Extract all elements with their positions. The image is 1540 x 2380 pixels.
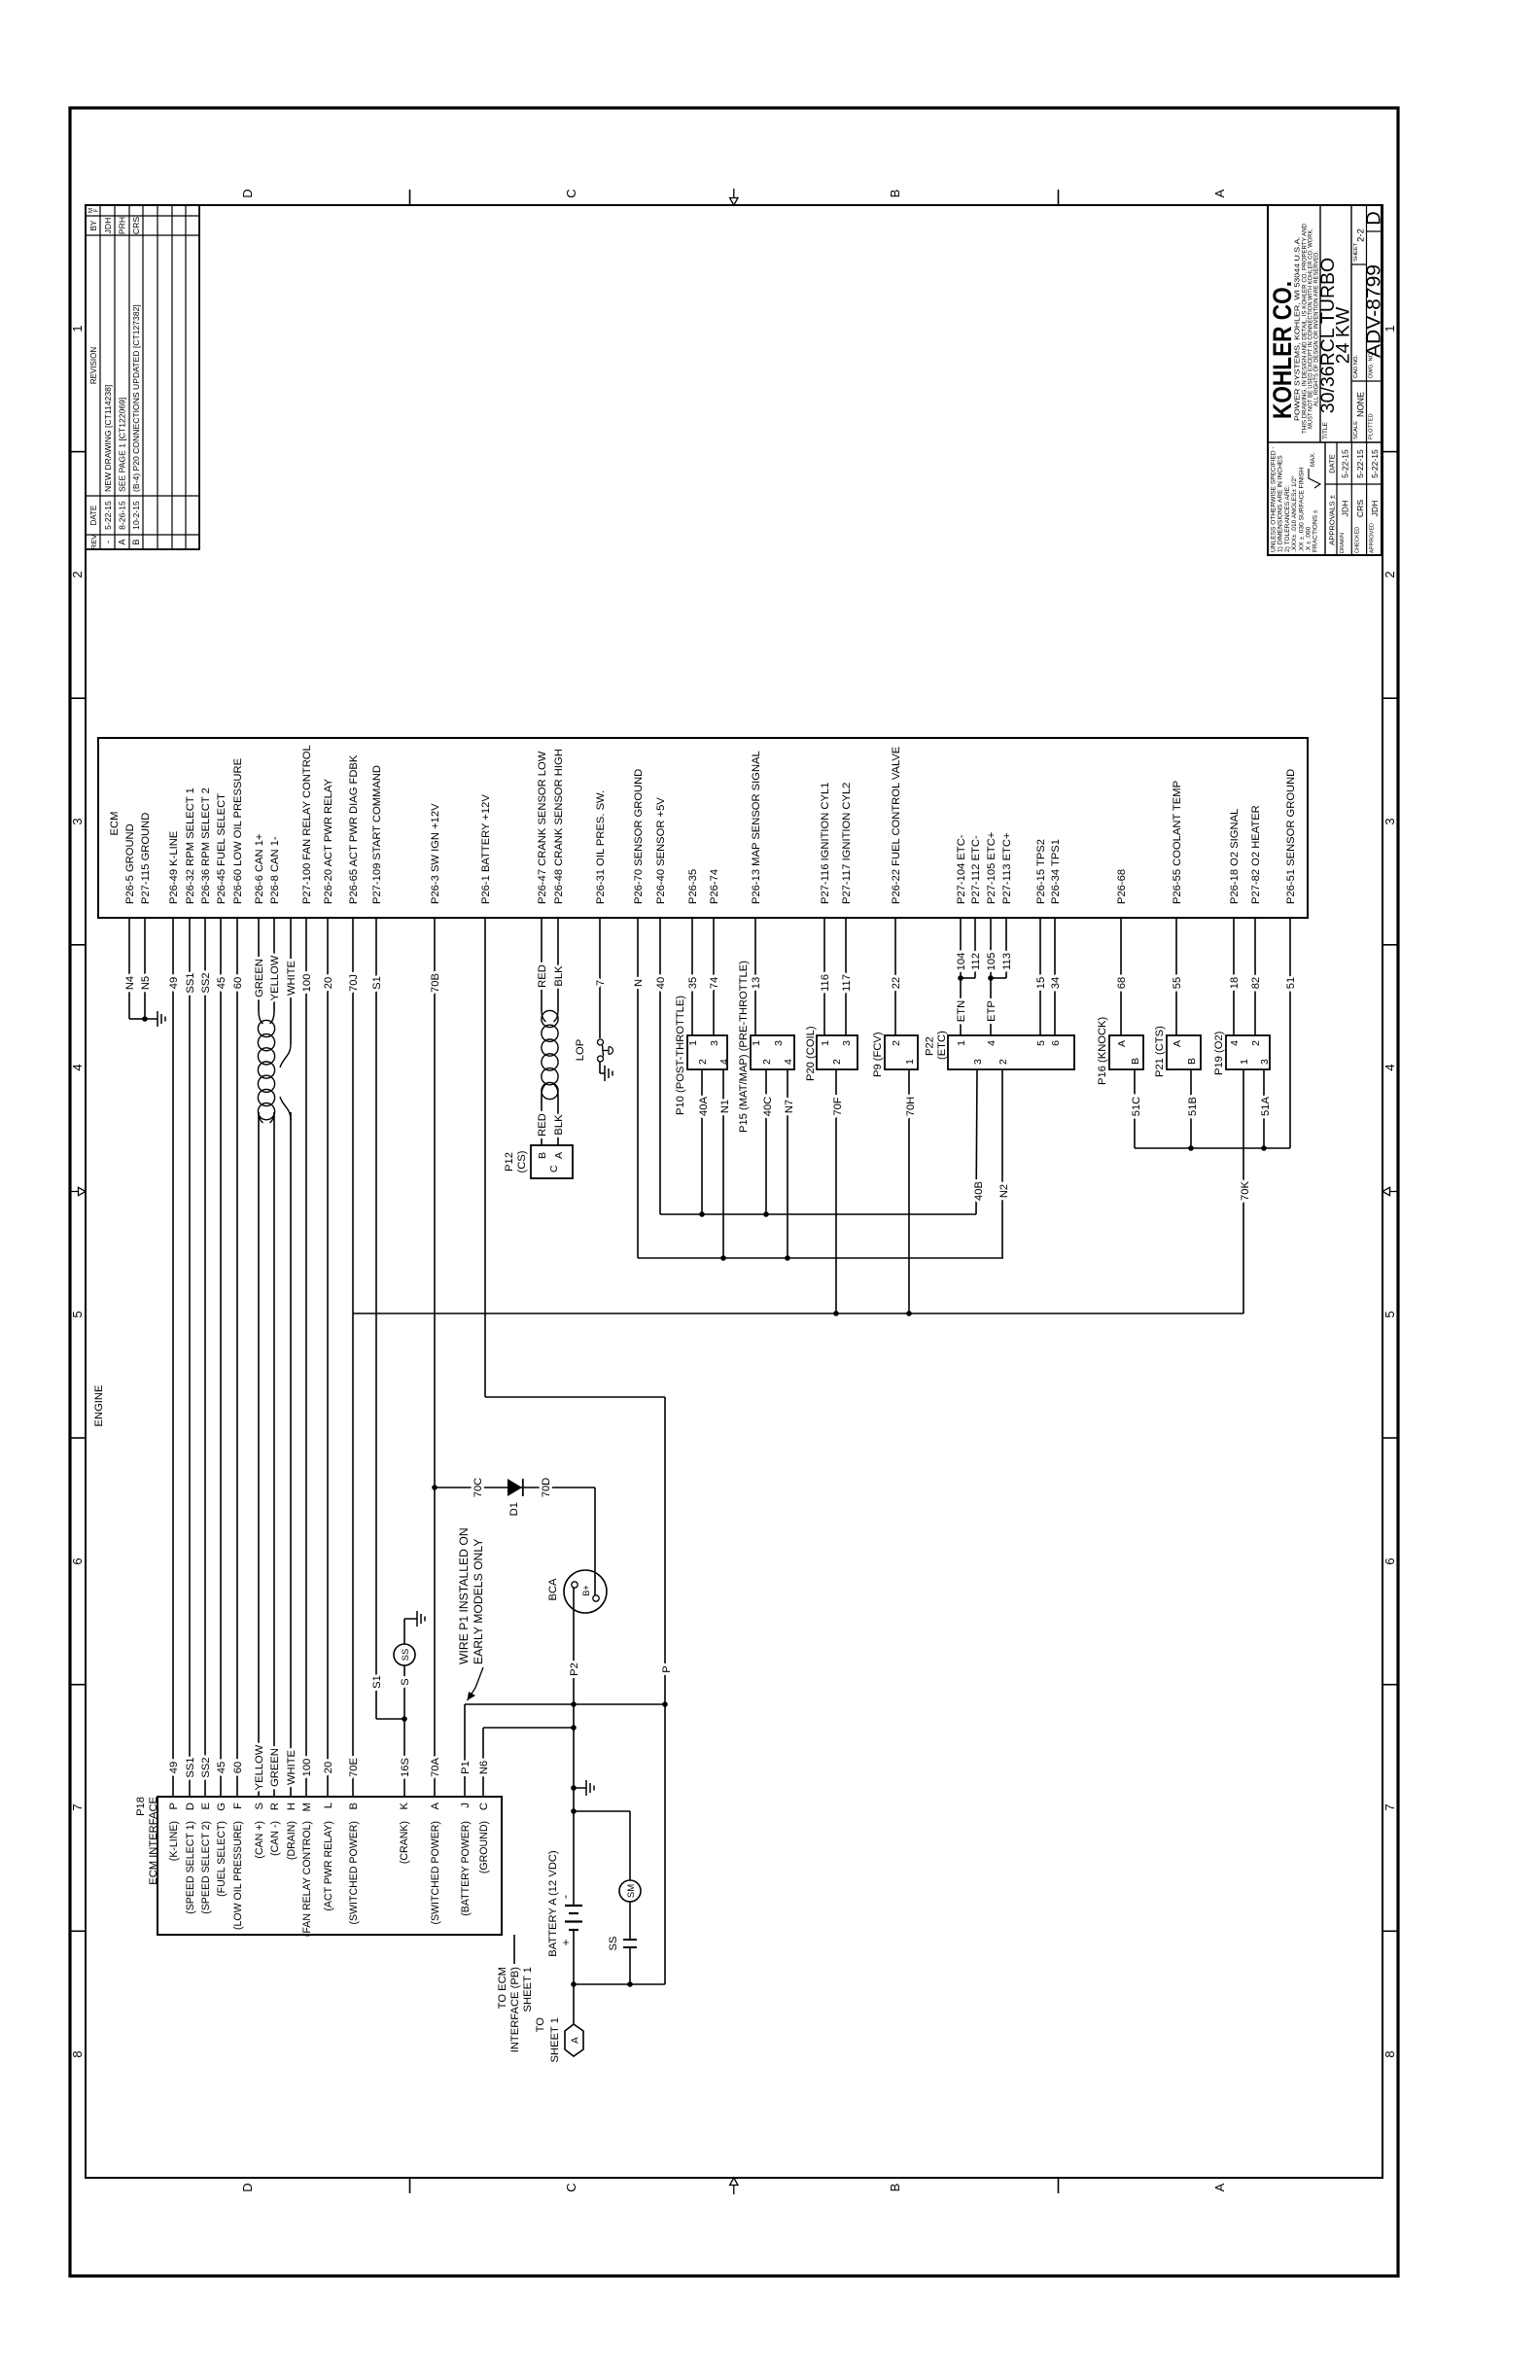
ECM connector box (98, 738, 1308, 918)
hexagon sheet reference A (565, 2024, 583, 2056)
svg-text:N1: N1 (719, 1100, 731, 1113)
wire CAN GREEN (P18 side) (273, 1112, 275, 1797)
svg-text:SS: SS (401, 1649, 411, 1662)
svg-text:(CAN +): (CAN +) (254, 1821, 265, 1859)
svg-text:P21 (CTS): P21 (CTS) (1154, 1026, 1166, 1077)
svg-text:70J: 70J (348, 974, 360, 992)
svg-text:6: 6 (70, 1557, 85, 1564)
wire 35 (691, 918, 693, 1035)
svg-text:P26-65 ACT PWR DIAG FDBK: P26-65 ACT PWR DIAG FDBK (348, 754, 360, 904)
svg-text:74: 74 (709, 977, 720, 989)
svg-text:70F: 70F (832, 1097, 844, 1115)
svg-text:GREEN: GREEN (269, 1748, 281, 1787)
svg-text:WHITE: WHITE (286, 1750, 297, 1785)
svg-text:B: B (537, 1152, 548, 1159)
wire 112 (974, 918, 976, 978)
svg-text:(CAN -): (CAN -) (269, 1821, 281, 1856)
junction 40C (763, 1211, 769, 1217)
svg-text:3: 3 (1382, 818, 1397, 824)
svg-text:S1: S1 (371, 976, 383, 990)
sheet outer border (70, 108, 1398, 2276)
svg-text:JDH: JDH (1370, 501, 1380, 517)
svg-text:(ETC): (ETC) (936, 1031, 948, 1060)
svg-text:P27-82 O2 HEATER: P27-82 O2 HEATER (1250, 805, 1262, 904)
connector P20 (COIL) (817, 1035, 857, 1069)
svg-text:SM: SM (626, 1884, 637, 1898)
wire S1 riser (376, 1718, 404, 1720)
svg-text:104: 104 (956, 953, 967, 971)
wire 116 (823, 918, 825, 1035)
wire SS2/SS2 (204, 918, 206, 1797)
svg-text:6: 6 (1382, 1557, 1397, 1564)
svg-text:105: 105 (986, 953, 997, 971)
svg-text:3: 3 (972, 1059, 984, 1065)
svg-text:P19 (O2): P19 (O2) (1213, 1031, 1225, 1075)
svg-text:70E: 70E (348, 1758, 360, 1777)
wire 22 (894, 918, 896, 1035)
svg-text:BCA: BCA (547, 1578, 559, 1601)
svg-text:45: 45 (216, 1762, 227, 1773)
svg-text:APPROVALS ±: APPROVALS ± (1328, 495, 1337, 545)
junction 40A (699, 1211, 705, 1217)
svg-text:TO ECM: TO ECM (497, 1967, 508, 2009)
svg-text:S: S (254, 1802, 265, 1809)
SS contact plate 1 (623, 1939, 637, 1941)
svg-text:(DRAIN): (DRAIN) (286, 1821, 297, 1860)
svg-text:P26-18 O2 SIGNAL: P26-18 O2 SIGNAL (1229, 809, 1241, 904)
70 net riser (353, 1312, 1243, 1314)
junction starter branch (571, 1808, 577, 1814)
svg-text:WHITE: WHITE (286, 961, 297, 996)
svg-text:H: H (286, 1802, 297, 1810)
svg-text:D: D (240, 189, 255, 197)
svg-text:ADV-8799: ADV-8799 (1364, 264, 1385, 358)
wire riser P1/P2/P junction (465, 1703, 665, 1705)
svg-text:5: 5 (1035, 1040, 1047, 1046)
svg-text:P9 (FCV): P9 (FCV) (872, 1032, 884, 1077)
svg-text:(FUEL SELECT): (FUEL SELECT) (216, 1821, 227, 1897)
svg-text:P: P (168, 1802, 180, 1809)
svg-text:BLK: BLK (553, 1114, 565, 1136)
svg-text:C: C (564, 2183, 578, 2191)
svg-text:TITLE: TITLE (1322, 421, 1329, 439)
LOP low oil pressure switch (598, 1039, 604, 1045)
junction S1/S/16S (402, 1716, 407, 1722)
wire RED (ECM side) (541, 918, 542, 1011)
svg-text:B: B (1130, 1058, 1141, 1065)
svg-text:51A: 51A (1260, 1097, 1272, 1116)
svg-text:PLOTTED: PLOTTED (1369, 413, 1375, 439)
wire N2 (1001, 1069, 1003, 1258)
wire CAN YELLOW (P18 side) (258, 1112, 260, 1797)
wire 51 (1289, 918, 1291, 1148)
svg-text:SHEET: SHEET (1353, 242, 1359, 262)
wire 16S (403, 1719, 405, 1797)
ground at LOP (600, 1066, 612, 1081)
svg-text:3: 3 (709, 1040, 720, 1046)
svg-text:24 KW: 24 KW (1333, 306, 1354, 364)
svg-text:+: + (559, 1939, 573, 1945)
wire BLK (P12 side) (557, 1095, 559, 1145)
svg-text:P26-36 RPM SELECT 2: P26-36 RPM SELECT 2 (200, 787, 212, 904)
svg-text:LOP: LOP (575, 1039, 586, 1061)
center arrow left (730, 2178, 738, 2194)
svg-text:EARLY MODELS ONLY: EARLY MODELS ONLY (472, 1539, 485, 1664)
svg-text:49: 49 (168, 977, 180, 989)
svg-text:SS: SS (608, 1937, 619, 1951)
svg-text:A: A (571, 2037, 581, 2044)
svg-text:P26-6 CAN 1+: P26-6 CAN 1+ (254, 834, 265, 904)
svg-text:C: C (478, 1802, 490, 1810)
svg-text:60: 60 (232, 977, 244, 989)
svg-text:20: 20 (323, 1762, 334, 1773)
svg-text:E: E (200, 1802, 212, 1809)
battery positive wire (573, 1930, 575, 1984)
svg-text:ECM: ECM (109, 812, 121, 836)
wire N (637, 918, 639, 1258)
SS contact plate 2 (623, 1946, 637, 1948)
svg-text:N6: N6 (478, 1761, 490, 1774)
connector P15 (MAT/MAP) (PRE-THROTTLE) (751, 1035, 794, 1069)
svg-text:2: 2 (1382, 571, 1397, 577)
svg-text:3: 3 (70, 818, 85, 824)
svg-text:P26-68: P26-68 (1116, 869, 1128, 904)
zone tick right (409, 190, 411, 205)
svg-text:40C: 40C (762, 1097, 774, 1117)
wire CAN YELLOW (ECM side) (273, 918, 275, 1011)
svg-text:SS1: SS1 (185, 972, 196, 993)
wire 70J/70E (352, 918, 354, 1797)
svg-text:UNLESS OTHERWISE SPECIFIED -: UNLESS OTHERWISE SPECIFIED - (1271, 446, 1277, 552)
svg-text:P27-104 ETC-: P27-104 ETC- (956, 834, 967, 904)
junction N1 (720, 1255, 726, 1261)
svg-text:F: F (94, 208, 100, 212)
svg-text:(ACT PWR RELAY): (ACT PWR RELAY) (323, 1821, 334, 1911)
wire 34 (1054, 918, 1056, 1035)
svg-text:-: - (103, 541, 113, 543)
wire drain WHITE (ECM side) (290, 918, 292, 1044)
svg-text:117: 117 (841, 974, 853, 992)
svg-text:1: 1 (70, 325, 85, 332)
svg-text:BATTERY A (12 VDC): BATTERY A (12 VDC) (547, 1850, 559, 1957)
title cell top line (1319, 205, 1321, 442)
40 net riser (660, 1213, 976, 1215)
svg-text:34: 34 (1050, 977, 1062, 989)
svg-text:100: 100 (301, 974, 313, 993)
svg-text:22: 22 (891, 977, 902, 989)
wire 105 (990, 918, 992, 978)
svg-text:REVISION: REVISION (89, 347, 98, 384)
scale row top line (1350, 205, 1352, 442)
svg-text:K: K (399, 1802, 410, 1809)
svg-text:MAX.: MAX. (1310, 452, 1316, 467)
svg-text:51: 51 (1285, 977, 1297, 989)
svg-text:REV: REV (89, 535, 98, 549)
svg-text:B+: B+ (581, 1585, 591, 1595)
wire N7 (787, 1069, 788, 1258)
junction ground tap (571, 1785, 577, 1791)
svg-text:TO: TO (535, 2017, 546, 2033)
svg-text:P16 (KNOCK): P16 (KNOCK) (1097, 1016, 1108, 1085)
wire 60/60 (236, 918, 238, 1797)
svg-text:4: 4 (986, 1040, 997, 1046)
svg-text:55: 55 (1172, 977, 1183, 989)
svg-text:P26-51 SENSOR GROUND: P26-51 SENSOR GROUND (1285, 769, 1297, 904)
wire 51C (1134, 1069, 1136, 1148)
svg-text:P26-15 TPS2: P26-15 TPS2 (1035, 839, 1047, 904)
P18 ECM INTERFACE box (157, 1797, 502, 1935)
svg-text:116: 116 (820, 974, 831, 992)
svg-text:8-26-15: 8-26-15 (118, 501, 127, 530)
ground N4/N5 (145, 1011, 165, 1027)
wire CAN GREEN (ECM side) (258, 918, 260, 1011)
svg-text:13: 13 (751, 977, 762, 989)
zone tick top (70, 697, 86, 699)
zone tick top (70, 1437, 86, 1439)
wire N4 (128, 918, 130, 1019)
svg-text:.XXX± .010 ANGLES± 1/2: .XXX± .010 ANGLES± 1/2° (1290, 475, 1298, 552)
svg-text:P15 (MAT/MAP) (PRE-THROTTLE): P15 (MAT/MAP) (PRE-THROTTLE) (738, 961, 750, 1133)
wire S1 (375, 918, 377, 1719)
svg-text:F: F (232, 1802, 244, 1809)
tolerance/approvals divider (1324, 442, 1326, 555)
svg-text:M: M (301, 1802, 313, 1811)
svg-text:L: L (323, 1802, 334, 1808)
svg-text:51C: 51C (1131, 1097, 1142, 1117)
connector P10 (POST-THROTTLE) (687, 1035, 727, 1069)
wire 55 (1175, 918, 1177, 1035)
svg-text:N7: N7 (784, 1100, 795, 1113)
wire hexagon to bus (573, 1984, 575, 2024)
svg-text:51B: 51B (1187, 1097, 1199, 1116)
svg-text:ETN: ETN (956, 1000, 967, 1022)
svg-text:P26-3 SW IGN +12V: P26-3 SW IGN +12V (430, 803, 441, 904)
wire 20/20 (327, 918, 329, 1797)
SS contactor (629, 1902, 631, 1940)
note arrow (475, 1667, 483, 1688)
wire 40A (701, 1069, 703, 1214)
svg-text:-: - (558, 1895, 572, 1899)
svg-text:(B-4) P20 CONNECTIONS UPDATED: (B-4) P20 CONNECTIONS UPDATED [CT127382] (131, 304, 141, 492)
svg-text:70D: 70D (541, 1478, 552, 1498)
LOP ground wire (599, 1062, 601, 1073)
junction 51A (1261, 1145, 1267, 1151)
svg-text:CAD NO.: CAD NO. (1353, 354, 1359, 378)
svg-text:5-22-15: 5-22-15 (103, 501, 113, 530)
svg-text:.XX ± .030 SURFACE FIN: .XX ± .030 SURFACE FINISH (1298, 468, 1305, 552)
zone tick bottom (1382, 451, 1398, 453)
svg-text:2: 2 (1250, 1040, 1262, 1046)
svg-text:(SWITCHED POWER): (SWITCHED POWER) (430, 1821, 441, 1925)
svg-text:2: 2 (891, 1040, 902, 1046)
SS crank switch circle (394, 1644, 415, 1665)
wire 82 (1254, 918, 1256, 1035)
junction 70H (906, 1311, 912, 1316)
svg-text:A: A (1116, 1040, 1128, 1047)
wire N4/N5 riser (129, 1018, 145, 1020)
svg-text:DATE: DATE (1328, 454, 1337, 473)
svg-text:70H: 70H (905, 1097, 917, 1117)
svg-text:4: 4 (718, 1059, 730, 1065)
svg-text:P26-20 ACT PWR RELAY: P26-20 ACT PWR RELAY (323, 779, 334, 904)
svg-text:2-2: 2-2 (1356, 228, 1367, 242)
svg-text:(FAN RELAY CONTROL): (FAN RELAY CONTROL) (301, 1821, 313, 1937)
svg-text:1) DIMENSIONS ARE IN INCHES: 1) DIMENSIONS ARE IN INCHES (1277, 455, 1284, 552)
svg-text:A: A (553, 1152, 565, 1159)
svg-text:D: D (240, 2183, 255, 2191)
svg-text:1: 1 (687, 1040, 699, 1046)
svg-text:(CS): (CS) (516, 1150, 528, 1172)
zone tick bottom (1382, 1930, 1398, 1932)
zone tick bottom (1382, 697, 1398, 699)
svg-text:FRACTIONS ±: FRACTIONS ± (1312, 509, 1319, 552)
battery plate short 2 (569, 1929, 578, 1931)
zone tick left (409, 2178, 411, 2193)
svg-text:2: 2 (997, 1059, 1009, 1065)
wire 70C (435, 1487, 595, 1488)
svg-text:P26-45 FUEL SELECT: P26-45 FUEL SELECT (216, 793, 227, 904)
svg-text:2: 2 (761, 1059, 773, 1065)
wire 13 (754, 918, 756, 1035)
svg-text:P26-8 CAN 1-: P26-8 CAN 1- (269, 836, 281, 904)
junction bus/starter (627, 1981, 633, 1987)
svg-text:(SPEED SELECT 1): (SPEED SELECT 1) (185, 1821, 196, 1914)
svg-text:7: 7 (70, 1803, 85, 1810)
wire 15 (1039, 918, 1041, 1035)
svg-text:40: 40 (655, 977, 667, 989)
svg-text:P26-60 LOW OIL PRESSURE: P26-60 LOW OIL PRESSURE (232, 758, 244, 904)
zone tick bottom (1382, 1437, 1398, 1439)
svg-text:B: B (888, 190, 902, 198)
svg-text:P26-55 COOLANT TEMP: P26-55 COOLANT TEMP (1172, 781, 1183, 904)
svg-text:BY: BY (89, 220, 98, 230)
BCA battery charging alternator (564, 1570, 607, 1613)
svg-text:4: 4 (1382, 1064, 1397, 1070)
svg-text:N: N (633, 979, 645, 987)
svg-text:NEW DRAWING [CT114238]: NEW DRAWING [CT114238] (103, 385, 113, 492)
svg-text:RED: RED (537, 1113, 548, 1137)
svg-text:P27-105 ETC+: P27-105 ETC+ (986, 832, 997, 904)
svg-text:G: G (216, 1802, 227, 1811)
svg-text:5-22-15: 5-22-15 (1370, 449, 1380, 478)
svg-text:B: B (131, 539, 141, 544)
svg-text:GREEN: GREEN (254, 959, 265, 997)
svg-text:S: S (400, 1678, 411, 1685)
P18 to-sheet-1 stub wire (513, 1935, 515, 1964)
wire drain WHITE (P18 side) (290, 1112, 292, 1797)
svg-text:A: A (1212, 2183, 1227, 2191)
zone tick bottom (1382, 944, 1398, 946)
svg-text:(SPEED SELECT 2): (SPEED SELECT 2) (200, 1821, 212, 1914)
SS circle ground wire (403, 1619, 405, 1644)
wire RED (P12 side) (541, 1095, 542, 1145)
svg-text:16S: 16S (400, 1758, 411, 1777)
junction N4/N5 (142, 1016, 148, 1022)
SM starter motor circle (619, 1880, 641, 1902)
svg-text:70C: 70C (472, 1478, 484, 1498)
center arrow right (730, 189, 738, 205)
svg-text:P22: P22 (925, 1036, 936, 1056)
svg-text:SCALE: SCALE (1353, 421, 1359, 439)
svg-text:4: 4 (783, 1059, 794, 1065)
wire 117 (845, 918, 847, 1035)
svg-text:(CRANK): (CRANK) (399, 1821, 410, 1864)
starter motor branch (574, 1810, 630, 1812)
svg-text:DATE: DATE (89, 506, 98, 526)
diode D1 (507, 1479, 522, 1496)
51 net riser (1135, 1147, 1290, 1149)
wire P (ECM battery feed) (484, 918, 486, 1397)
CAN twisted pair symbol (258, 1011, 291, 1123)
zone tick top (70, 1684, 86, 1686)
svg-text:112: 112 (970, 953, 982, 970)
zone tick top (70, 451, 86, 453)
zone tick bottom (1382, 1684, 1398, 1686)
svg-text:P10 (POST-THROTTLE): P10 (POST-THROTTLE) (675, 996, 686, 1115)
RED/BLK twisted pair symbol (542, 1010, 558, 1099)
wire 45/45 (220, 918, 222, 1797)
svg-text:P18: P18 (135, 1797, 147, 1816)
wire 113 (1005, 918, 1007, 978)
svg-text:15: 15 (1035, 977, 1047, 989)
svg-text:B: B (1186, 1058, 1198, 1065)
svg-text:100: 100 (301, 1759, 313, 1777)
svg-text:1: 1 (820, 1040, 831, 1046)
svg-text:(SWITCHED POWER): (SWITCHED POWER) (348, 1821, 360, 1925)
svg-text:P27-113 ETC+: P27-113 ETC+ (1001, 833, 1013, 904)
svg-text:P26-34 TPS1: P26-34 TPS1 (1050, 839, 1062, 904)
wire 70D to BCA (594, 1487, 596, 1595)
junction N6/battery negative (571, 1725, 577, 1731)
svg-text:P26-47 CRANK SENSOR LOW: P26-47 CRANK SENSOR LOW (537, 751, 548, 904)
svg-text:D: D (185, 1802, 196, 1810)
svg-text:A: A (1212, 189, 1227, 197)
svg-text:P26-1 BATTERY +12V: P26-1 BATTERY +12V (480, 794, 492, 904)
junction 70 branch (432, 1485, 437, 1490)
wire 40 (659, 918, 661, 1214)
svg-text:CRS: CRS (131, 217, 141, 234)
svg-text:P26-32 RPM SELECT 1: P26-32 RPM SELECT 1 (185, 787, 196, 904)
svg-text:45: 45 (216, 977, 227, 989)
wire 7 to LOP (599, 918, 601, 1038)
svg-text:N2: N2 (998, 1184, 1010, 1198)
svg-text:P27-115 GROUND: P27-115 GROUND (140, 813, 152, 904)
svg-text:49: 49 (168, 1762, 180, 1773)
svg-text:70B: 70B (430, 973, 441, 993)
svg-text:B: B (348, 1802, 360, 1809)
zone tick top (70, 1930, 86, 1932)
svg-text:A: A (118, 539, 127, 544)
connector P22 (948, 1035, 1074, 1069)
svg-text:1: 1 (956, 1040, 967, 1046)
connector P19 (O2) (1226, 1035, 1270, 1069)
svg-text:2) TOLERANCES ARE:: 2) TOLERANCES ARE: (1284, 485, 1291, 552)
113 jog (991, 977, 1006, 979)
wire P2 from BCA (573, 1588, 575, 1704)
battery plate long 2 (565, 1920, 582, 1922)
svg-text:JDH: JDH (1341, 501, 1350, 517)
svg-text:J: J (460, 1802, 472, 1808)
svg-text:B: B (888, 2184, 902, 2192)
svg-text:P26-49 K-LINE: P26-49 K-LINE (168, 831, 180, 904)
svg-text:20: 20 (323, 977, 334, 989)
center arrow bottom (1382, 1187, 1399, 1195)
svg-text:82: 82 (1250, 977, 1262, 989)
title block divider vertical (1268, 441, 1382, 443)
svg-text:C: C (548, 1165, 560, 1172)
junction 51B (1188, 1145, 1194, 1151)
connector P16 (KNOCK) (1109, 1035, 1143, 1069)
